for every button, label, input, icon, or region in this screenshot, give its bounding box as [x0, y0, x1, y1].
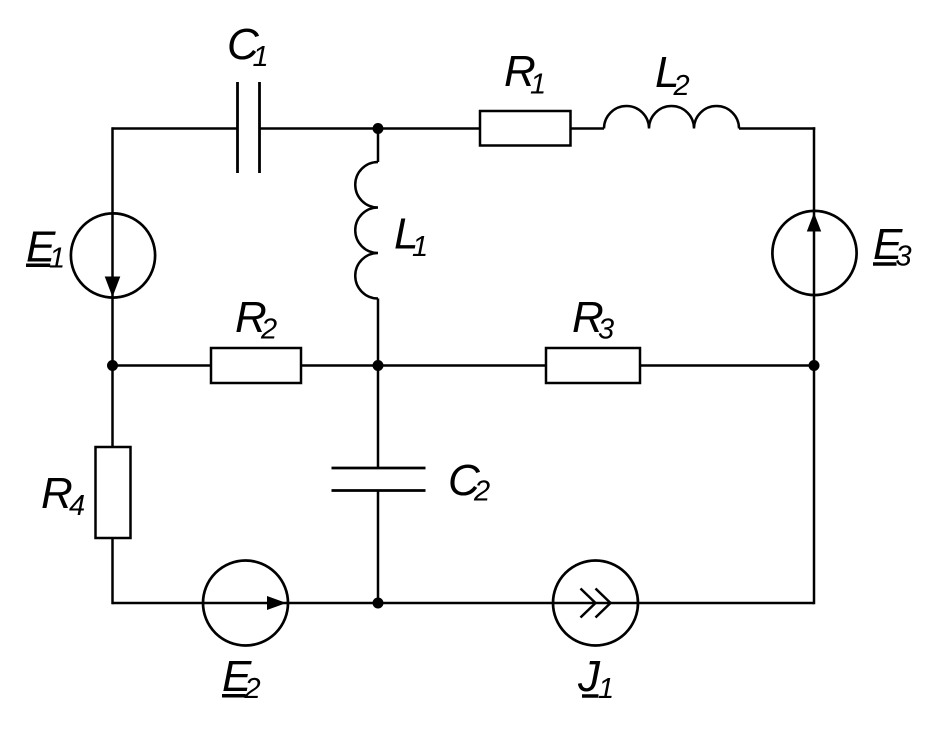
wire right vertical (through E3) [813, 127, 816, 604]
wire C1 right plate to R1 [260, 127, 481, 130]
svg-text:1: 1 [253, 41, 269, 73]
svg-text:R: R [41, 469, 73, 518]
E2 arrowhead (right) [267, 596, 286, 610]
wire bottom row [113, 602, 815, 605]
resistor R4 [96, 447, 131, 538]
resistor R2 [211, 348, 301, 383]
label C2 [448, 456, 490, 508]
label J1 [577, 652, 614, 705]
capacitor C1 plates [238, 82, 260, 173]
wire L2 to top-right corner [739, 127, 815, 130]
node top-middle [373, 123, 384, 134]
wire left vertical lower (R4 to bottom-left corner) [111, 538, 114, 604]
node middle-center [373, 360, 384, 371]
wire top-left (E1 top to C1 left plate) [113, 127, 238, 130]
svg-text:1: 1 [412, 231, 428, 263]
resistor R1 [480, 111, 571, 146]
node bottom-middle [373, 598, 384, 609]
label L2 [655, 48, 690, 102]
wire middle row right (R3 to right node) [640, 364, 814, 367]
label E3 [873, 220, 912, 273]
svg-text:2: 2 [473, 476, 490, 508]
capacitor C2 plates [332, 468, 426, 491]
label R2 [235, 293, 277, 346]
wire middle row center (R2 to R3) [301, 364, 546, 367]
wire C2 bottom plate to bottom wire [377, 491, 380, 604]
wire middle row left (node to R2) [113, 364, 212, 367]
wire middle vertical top (node to L1) [377, 129, 380, 163]
wire R1 to L2 [571, 127, 605, 130]
wire L1 bottom to C2 top plate [377, 299, 380, 469]
label R4 [41, 469, 85, 522]
inductor L1 [355, 162, 378, 299]
svg-text:1: 1 [598, 673, 614, 705]
source E1 circle [71, 213, 155, 297]
source E3 circle [772, 211, 856, 295]
source E2 circle [203, 561, 288, 646]
label L1 [394, 210, 428, 264]
node middle-right [809, 360, 820, 371]
svg-text:2: 2 [260, 314, 277, 346]
wire left vertical upper (through E1) [111, 127, 114, 447]
E3 arrowhead (up) [807, 213, 821, 232]
resistor R3 [546, 348, 640, 383]
inductor L2 [604, 106, 739, 129]
label E1 [26, 223, 65, 275]
label R3 [572, 293, 614, 346]
label E2 [222, 652, 261, 705]
svg-text:2: 2 [244, 673, 261, 705]
svg-text:3: 3 [896, 241, 912, 273]
label C1 [227, 20, 269, 73]
svg-text:2: 2 [673, 70, 690, 102]
svg-text:3: 3 [598, 314, 614, 346]
svg-text:1: 1 [530, 69, 546, 101]
current source J1 chevrons [581, 589, 611, 618]
svg-text:1: 1 [49, 243, 65, 275]
label R1 [504, 47, 546, 101]
source J1 circle [553, 561, 638, 646]
svg-text:4: 4 [69, 490, 85, 522]
E1 arrowhead (down) [105, 277, 121, 298]
node middle-left [107, 360, 118, 371]
